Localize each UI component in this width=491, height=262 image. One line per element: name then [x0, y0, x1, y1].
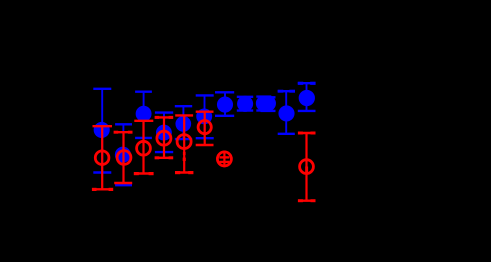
blue point 10 marker [278, 105, 294, 121]
red point 3 error bar [134, 121, 153, 174]
red point 11 marker [300, 160, 314, 174]
cap end ticks (red) [92, 116, 316, 202]
blue point 1 marker [94, 122, 110, 138]
blue point 8 error bar [237, 97, 253, 111]
blue point 7 marker [217, 97, 233, 113]
red point 5 marker [177, 135, 191, 149]
red point 7 marker [217, 152, 231, 166]
red point 7 error bar (tiny, inside marker) [219, 151, 229, 168]
red point 11 error bar [298, 133, 315, 201]
blue point 11 error bar [298, 83, 316, 111]
red point 2 error bar [114, 132, 132, 183]
blue point 8 marker [237, 96, 253, 112]
red point 1 error bar [93, 126, 113, 189]
blue point 4 marker [156, 125, 172, 141]
blue point 9b marker [260, 95, 276, 111]
red point 4 marker [157, 131, 171, 145]
blue point 10 error bar [278, 91, 295, 134]
blue point 9a error bar [256, 97, 271, 111]
blue point 3 error bar [135, 92, 152, 138]
blue point 5 error bar [175, 106, 192, 139]
cap end ticks (blue) [278, 82, 316, 93]
blue point 2 error bar [115, 124, 132, 185]
red point 6 error bar [196, 112, 214, 145]
blue point 9b error bar [261, 97, 276, 111]
red point 3 marker [137, 141, 151, 155]
red point 1 marker [95, 151, 109, 165]
red point 5 error bar [175, 115, 193, 172]
blue point 1 error bar [93, 89, 111, 173]
blue point 6 error bar [196, 95, 214, 138]
red point 4 error bar [155, 117, 173, 157]
blue point 9a marker [256, 95, 272, 111]
blue point 11 marker [299, 90, 315, 106]
blue point 7 error bar [215, 92, 234, 116]
blue point 6 marker [196, 108, 212, 124]
blue point 4 error bar [155, 113, 173, 153]
red point 6 marker [198, 121, 211, 134]
red point 2 marker [117, 151, 131, 165]
blue point 3 marker [136, 106, 152, 122]
blue point 5 marker [175, 116, 191, 132]
blue point 2 marker [115, 147, 131, 163]
